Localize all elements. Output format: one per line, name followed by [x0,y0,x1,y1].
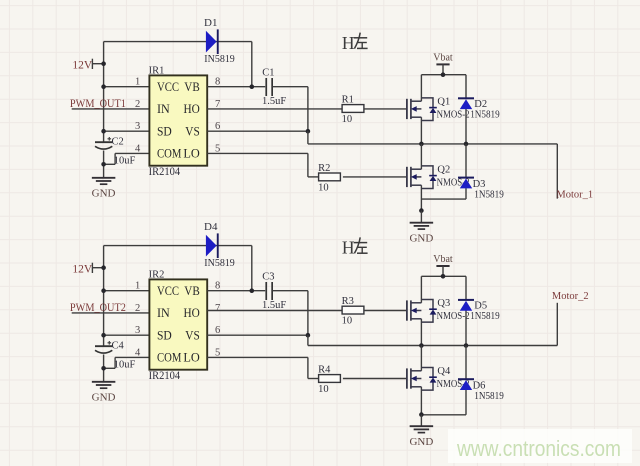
wire gate wire lower FET (circuit 1) [343,176,408,178]
svg-text:10: 10 [342,114,353,125]
wire Vbat stem (circuit 2) [442,266,444,276]
wire COM pin 4 drop (circuit 1) [114,153,116,164]
wire gate wire upper FET (circuit 1) [364,108,408,110]
svg-text:2: 2 [135,303,140,314]
svg-text:7: 7 [215,303,220,314]
wire 12V bus vertical upper (circuit 1) [103,42,105,143]
node junction VCC (circuit 1) [101,84,106,89]
svg-text:R1: R1 [342,94,354,105]
svg-text:VS: VS [185,124,200,138]
diode D1 (IN5819) [206,29,219,54]
capacitor C1 (1.5uF) [265,78,273,96]
svg-text:PWM_OUT1: PWM_OUT1 [70,98,126,110]
wire lower diode cathode wire (circuit 2) [465,346,467,380]
wire upper FET source (circuit 2) [420,319,422,346]
wire Motor_2 wire [556,303,558,346]
Vbat bar (circuit 2) [436,265,449,267]
wire bootstrap drop to VS (circuit 2) [307,291,309,336]
svg-text:4: 4 [135,143,141,154]
svg-text:1.5uF: 1.5uF [262,96,286,107]
svg-text:GND: GND [92,391,116,403]
svg-text:10: 10 [318,183,329,194]
wire gate wire upper FET (circuit 2) [364,310,408,312]
node junction phase/diode (circuit 2) [464,343,469,348]
svg-text:SD: SD [157,328,172,342]
wire diode cathode drop (circuit 1) [251,42,253,87]
svg-text:GND: GND [409,232,433,244]
svg-text:1: 1 [135,281,140,292]
svg-text:GND: GND [409,436,433,448]
svg-text:Q1: Q1 [437,97,450,108]
svg-text:HO: HO [184,102,200,116]
wire Motor_1 wire [556,144,558,199]
ground symbol GND left circuit 2 [92,382,116,388]
svg-text:IR2104: IR2104 [149,166,181,178]
svg-text:3: 3 [135,121,140,132]
wire lower FET source (circuit 2) [420,387,422,415]
wire lower FET source (circuit 1) [420,185,422,210]
diode D3 (1N5819) [458,177,474,189]
wire GND stem (circuit 2) [420,415,422,427]
svg-text:Motor_1: Motor_1 [556,190,593,201]
svg-text:IR2104: IR2104 [149,370,181,382]
node junction Vbat (circuit 1) [441,72,446,77]
svg-text:Q3: Q3 [437,298,450,309]
node junction 12V (circuit 1) [101,61,106,66]
svg-text:IR1: IR1 [149,65,165,76]
node junction source/GND (circuit 2) [419,412,424,417]
wire bootstrap cap to VS wire (circuit 1) [273,86,308,88]
ground symbol GND bridge circuit 1 [410,223,434,229]
svg-text:IR2: IR2 [149,269,165,280]
capacitor C4 (10uF) [95,341,112,353]
wire lower FET drain (circuit 2) [420,346,422,371]
svg-text:COM: COM [157,147,182,161]
svg-text:1N5819: 1N5819 [470,109,500,120]
svg-text:IN5819: IN5819 [204,53,235,65]
svg-text:H: H [342,33,355,53]
svg-text:www.cntronics.com: www.cntronics.com [456,436,621,461]
node junction 12V (circuit 2) [101,265,106,270]
wire gate wire lower FET (circuit 2) [343,378,408,380]
svg-text:2: 2 [135,99,140,110]
svg-text:PWM_OUT2: PWM_OUT2 [70,302,126,314]
resistor R4 (10) [319,375,341,383]
svg-text:12V: 12V [72,263,93,275]
wire LO pin 5 wire (circuit 1) [207,152,308,154]
wire bus vertical below C2 (circuit 1) [103,151,105,178]
wire phase node wire (circuit 2) [308,345,557,347]
wire diode cathode drop (circuit 2) [251,246,253,291]
wire upper diode cathode wire (circuit 1) [465,75,467,99]
svg-text:1N5819: 1N5819 [474,391,504,402]
svg-text:10: 10 [318,384,329,395]
resistor R2 (10) [319,173,341,181]
wire LO link to resistor (circuit 1) [308,176,319,178]
wire COM pin 4 link (circuit 2) [104,367,116,369]
svg-text:D4: D4 [204,221,218,233]
node junction phase/diode (circuit 1) [464,142,469,147]
ground symbol GND left circuit 1 [92,178,116,184]
wire VS pin 6 wire (circuit 2) [207,334,308,336]
svg-text:VCC: VCC [157,80,179,94]
svg-text:SD: SD [157,124,172,138]
wire 12V stub (circuit 1) [92,63,103,65]
svg-text:D1: D1 [204,17,217,29]
diode D2 (1N5819) [458,97,474,109]
svg-text:3: 3 [135,325,140,336]
transistor Q1 (NMOS-2) [407,98,437,121]
wire SD pin 3 wire (circuit 2) [104,334,150,336]
svg-text:Vbat: Vbat [433,53,453,64]
svg-text:IN: IN [157,306,170,320]
op-amp driver IC IR1 (IR2104) [149,75,207,165]
node junction SD (circuit 2) [101,333,106,338]
node junction SD (circuit 1) [101,129,106,134]
resistor R1 (10) [342,105,364,113]
node junction VCC (circuit 2) [101,288,106,293]
wire upper FET drain (circuit 2) [420,276,422,303]
svg-text:10: 10 [342,316,353,327]
svg-text:LO: LO [183,147,200,161]
Vbat bar (circuit 1) [436,63,449,65]
wire 12V stub (circuit 2) [92,267,103,269]
node junction VS node (circuit 1) [306,129,311,134]
wire 12V bus vertical upper (circuit 2) [103,246,105,347]
wire COM pin 4 wire (circuit 1) [115,152,149,154]
wire LO jog down (circuit 2) [307,357,309,378]
diode D5 (1N5819) [458,299,474,311]
svg-text:IN5819: IN5819 [204,257,235,269]
node junction phase/upper source (circuit 2) [419,343,424,348]
svg-text:C4: C4 [112,340,125,351]
node junction COM/GND (circuit 1) [101,162,106,167]
watermark backdrop [448,429,632,463]
wire VB pin 8 wire (circuit 1) [207,86,265,88]
svg-text:1N5819: 1N5819 [474,190,504,201]
wire GND stem (circuit 1) [420,211,422,223]
node junction VB/diode (circuit 2) [250,288,255,293]
wire lower diode cathode wire (circuit 1) [465,144,467,178]
wire Vbat rail (circuit 1) [421,74,466,76]
resistor R3 (10) [342,306,364,314]
wire IN pin 2 wire / PWM net (circuit 2) [72,312,150,314]
transistor Q2 (NMOS-2) [407,166,437,189]
wire bootstrap cap to VS wire (circuit 2) [273,290,308,292]
svg-text:Motor_2: Motor_2 [552,291,589,302]
svg-text:VCC: VCC [157,284,179,298]
wire COM pin 4 wire (circuit 2) [115,356,149,358]
wire LO link to resistor (circuit 2) [308,378,319,380]
svg-text:HO: HO [184,306,200,320]
wire VCC pin 1 wire (circuit 2) [104,290,150,292]
node junction Vbat (circuit 2) [441,274,446,279]
svg-text:12V: 12V [72,59,93,71]
svg-text:IN: IN [157,102,170,116]
svg-text:C1: C1 [262,68,274,79]
capacitor C2 (10uF) [95,137,112,149]
svg-text:LO: LO [183,351,200,365]
wire lower diode to source link (circuit 1) [421,198,466,200]
wire LO jog down (circuit 1) [307,153,309,177]
wire lower diode anode wire (circuit 2) [465,390,467,415]
svg-text:NMOS-2: NMOS-2 [437,311,470,322]
wire upper diode cathode wire (circuit 2) [465,276,467,300]
wire Vbat rail (circuit 2) [421,275,466,277]
svg-text:1N5819: 1N5819 [470,311,500,322]
wire HO pin 7 wire (circuit 1) [207,108,342,110]
wire HO pin 7 wire (circuit 2) [207,310,342,312]
12V port tick (circuit 2) [91,263,93,273]
transistor Q4 (NMOS-2) [407,368,437,391]
svg-text:R3: R3 [342,296,354,307]
svg-text:R2: R2 [318,163,330,174]
node junction source/GND (circuit 1) [419,208,424,213]
svg-text:10uF: 10uF [114,359,136,370]
wire VS jog down (circuit 2) [307,335,309,345]
svg-text:VB: VB [184,80,200,94]
wire bus vertical below C4 (circuit 2) [103,355,105,382]
wire upper diode anode wire (circuit 2) [465,311,467,346]
svg-text:D6: D6 [473,381,486,392]
svg-text:R4: R4 [318,364,331,375]
svg-text:1: 1 [135,77,140,88]
diode D4 (IN5819) [206,233,219,258]
wire VB pin 8 wire (circuit 2) [207,290,265,292]
wire lower diode to source link (circuit 2) [421,414,466,416]
title glyph zuo of H-zuo circuit 2 [354,237,368,253]
svg-text:1.5uF: 1.5uF [262,300,286,311]
wire upper FET source (circuit 1) [420,117,422,144]
wire VS jog down (circuit 1) [307,131,309,144]
title glyph zuo of H-zuo circuit 1 [354,33,368,49]
wire COM pin 4 link (circuit 1) [104,163,116,165]
svg-text:GND: GND [92,187,116,199]
wire lower diode anode wire (circuit 1) [465,188,467,199]
12V port tick (circuit 1) [91,59,93,69]
diode D6 (1N5819) [458,378,474,390]
svg-text:4: 4 [135,347,141,358]
node junction COM/GND (circuit 2) [101,366,106,371]
svg-text:C2: C2 [112,136,124,147]
svg-text:H: H [342,238,355,258]
svg-text:Q2: Q2 [437,165,450,176]
svg-text:NMOS-2: NMOS-2 [437,109,470,120]
wire lower FET drain (circuit 1) [420,144,422,169]
svg-text:10uF: 10uF [114,155,136,166]
wire COM pin 4 drop (circuit 2) [114,357,116,368]
wire upper FET drain (circuit 1) [420,75,422,102]
svg-text:VS: VS [185,328,200,342]
node junction VS node (circuit 2) [306,333,311,338]
ground symbol GND bridge circuit 2 [410,426,434,432]
wire IN pin 2 wire / PWM net (circuit 1) [72,108,150,110]
transistor Q3 (NMOS-2) [407,300,437,323]
wire phase node wire (circuit 1) [308,143,557,145]
wire upper diode anode wire (circuit 1) [465,109,467,144]
svg-text:Q4: Q4 [437,366,451,377]
wire Vbat stem (circuit 1) [442,64,444,74]
wire bootstrap drop to VS (circuit 1) [307,87,309,132]
wire bootstrap diode wire (circuit 2) [104,245,252,247]
wire SD pin 3 wire (circuit 1) [104,130,150,132]
svg-text:VB: VB [184,284,200,298]
node junction VB/diode (circuit 1) [250,84,255,89]
svg-text:C3: C3 [262,272,274,283]
wire bootstrap diode wire (circuit 1) [104,41,252,43]
wire VCC pin 1 wire (circuit 1) [104,86,150,88]
svg-text:COM: COM [157,351,182,365]
wire VS pin 6 wire (circuit 1) [207,130,308,132]
capacitor C3 (1.5uF) [265,282,273,300]
svg-text:D3: D3 [473,179,486,190]
op-amp driver IC IR2 (IR2104) [149,279,207,369]
svg-text:Vbat: Vbat [433,254,453,265]
wire LO pin 5 wire (circuit 2) [207,356,308,358]
node junction phase/upper source (circuit 1) [419,142,424,147]
